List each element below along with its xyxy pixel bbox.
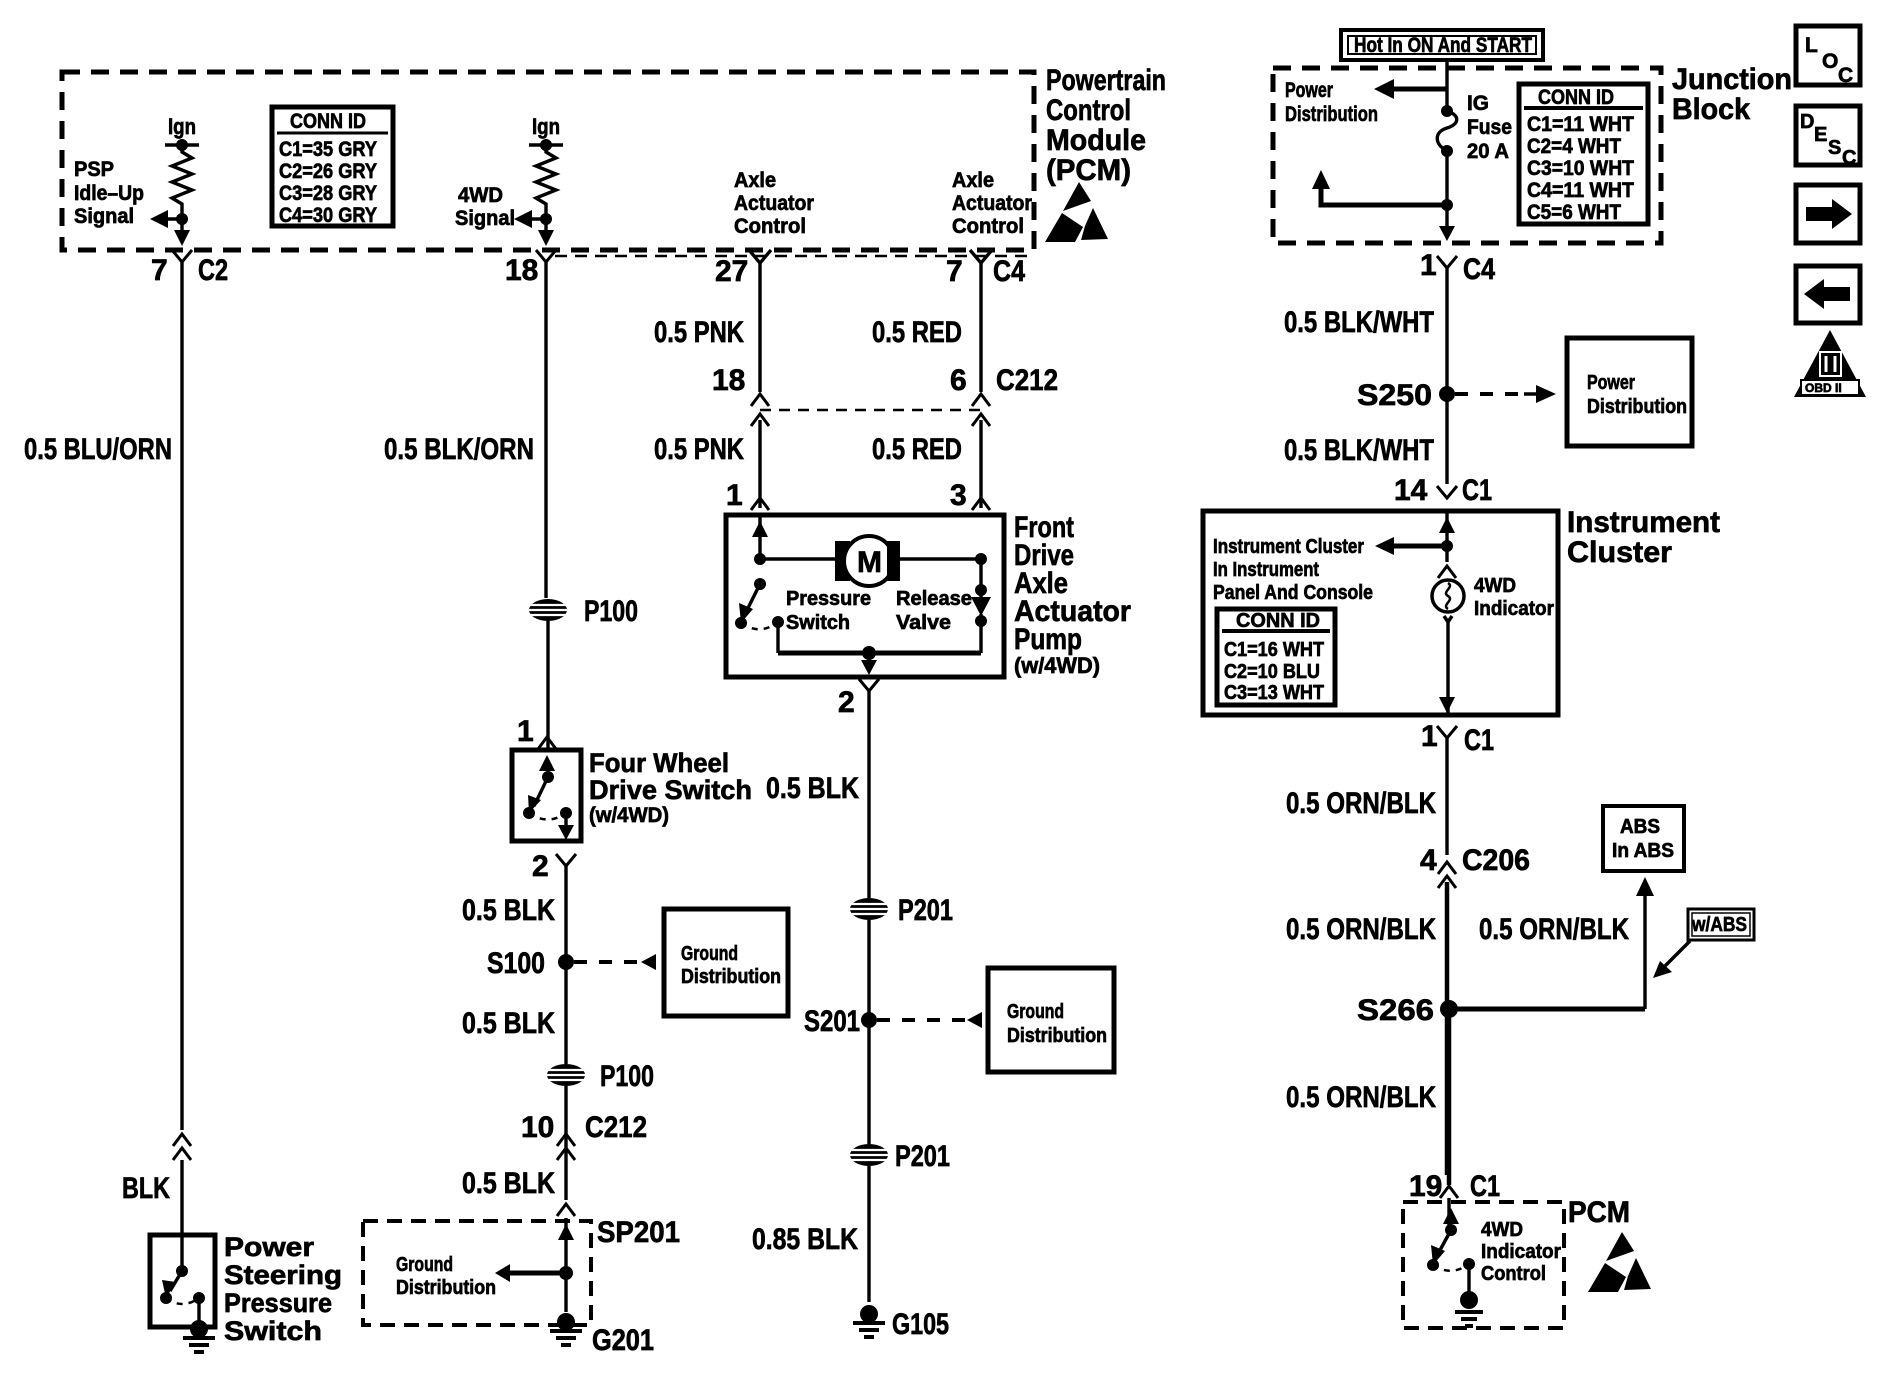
svg-text:Distribution: Distribution bbox=[1285, 103, 1378, 126]
svg-text:C4: C4 bbox=[993, 255, 1025, 288]
ground distribution box (S201) bbox=[988, 968, 1114, 1072]
svg-text:C1: C1 bbox=[1462, 474, 1492, 507]
svg-text:0.5 ORN/BLK: 0.5 ORN/BLK bbox=[1286, 913, 1436, 946]
PCM module dashed box bbox=[62, 72, 1034, 250]
4WD signal arrow bbox=[455, 184, 552, 230]
svg-text:Power: Power bbox=[1587, 372, 1635, 394]
svg-text:C1=35 GRY: C1=35 GRY bbox=[279, 138, 377, 161]
svg-text:S266: S266 bbox=[1357, 994, 1434, 1027]
svg-text:3: 3 bbox=[950, 479, 967, 512]
svg-text:0.5 ORN/BLK: 0.5 ORN/BLK bbox=[1479, 913, 1629, 946]
svg-text:CONN ID: CONN ID bbox=[1236, 610, 1320, 632]
svg-text:27: 27 bbox=[715, 255, 748, 288]
svg-text:19: 19 bbox=[1409, 1170, 1442, 1203]
svg-text:Cluster: Cluster bbox=[1567, 536, 1672, 569]
svg-text:Junction: Junction bbox=[1672, 63, 1792, 96]
svg-text:Distribution: Distribution bbox=[396, 1277, 496, 1299]
svg-text:C212: C212 bbox=[996, 364, 1058, 397]
svg-text:Block: Block bbox=[1672, 93, 1750, 126]
left arrow legend box bbox=[1796, 266, 1860, 323]
svg-text:Control: Control bbox=[952, 215, 1024, 238]
svg-text:L: L bbox=[1805, 34, 1818, 57]
svg-text:Power: Power bbox=[1285, 79, 1333, 102]
fuse IG 20A bbox=[1437, 89, 1512, 163]
svg-text:Powertrain: Powertrain bbox=[1046, 64, 1166, 97]
connector C212 chevrons right bbox=[950, 364, 1058, 426]
svg-text:Signal: Signal bbox=[74, 205, 134, 228]
wire 0.5 PNK upper bbox=[654, 263, 760, 392]
splice S201 bbox=[804, 1005, 877, 1038]
svg-text:7: 7 bbox=[946, 255, 963, 288]
svg-text:M: M bbox=[857, 546, 882, 579]
svg-text:Indicator: Indicator bbox=[1481, 1241, 1561, 1263]
svg-text:0.85 BLK: 0.85 BLK bbox=[752, 1223, 858, 1256]
grommet P201 lower bbox=[850, 1140, 950, 1173]
svg-text:Switch: Switch bbox=[786, 612, 850, 634]
lamp 4WD indicator bbox=[1432, 546, 1554, 622]
svg-text:0.5 RED: 0.5 RED bbox=[872, 316, 962, 349]
ground G201 bbox=[550, 1313, 654, 1357]
svg-text:C: C bbox=[1838, 64, 1853, 87]
svg-text:18: 18 bbox=[712, 364, 745, 397]
w/ABS box bbox=[1688, 909, 1754, 940]
S201 dashed arrow to ground distribution bbox=[877, 1012, 982, 1028]
node pin 1 C1 bbox=[1421, 720, 1494, 757]
pump bottom rail bbox=[778, 646, 981, 675]
resistor R-ign (4WD signal) bbox=[529, 114, 563, 212]
ground G105 bbox=[853, 1305, 949, 1341]
ESD symbol (PCM bottom) bbox=[1588, 1232, 1651, 1292]
junction block exit down arrow bbox=[1439, 205, 1455, 241]
svg-text:7: 7 bbox=[151, 254, 168, 287]
svg-text:P201: P201 bbox=[895, 1140, 950, 1173]
svg-text:0.5 BLK: 0.5 BLK bbox=[462, 894, 555, 927]
ESD symbol (PCM) bbox=[1045, 182, 1108, 242]
svg-text:PCM: PCM bbox=[1568, 1196, 1630, 1229]
thin connector dashed line under PCM bbox=[555, 255, 1034, 258]
svg-text:14: 14 bbox=[1394, 474, 1428, 507]
cluster exit wire and arrow bbox=[1439, 622, 1455, 715]
front drive axle actuator pump box bbox=[726, 515, 1004, 677]
wire SP201 to G201 bbox=[564, 1273, 567, 1312]
power distribution box (S250) bbox=[1567, 338, 1692, 446]
svg-text:Control: Control bbox=[734, 215, 806, 238]
release valve V1 bbox=[896, 553, 991, 653]
svg-text:Axle: Axle bbox=[734, 169, 776, 192]
node pin 2 (4WD switch) bbox=[532, 850, 576, 883]
svg-text:ABS: ABS bbox=[1620, 816, 1660, 838]
S250 dashed arrow to power distribution bbox=[1455, 385, 1556, 403]
svg-text:Distribution: Distribution bbox=[1587, 396, 1687, 418]
svg-text:Panel And Console: Panel And Console bbox=[1213, 582, 1373, 604]
svg-text:SP201: SP201 bbox=[597, 1216, 680, 1249]
instrument cluster box bbox=[1203, 511, 1558, 715]
wire 0.5 ORN/BLK (C206 to S266) bbox=[1286, 882, 1629, 1175]
svg-text:Drive Switch: Drive Switch bbox=[589, 775, 752, 805]
power distribution arrow (junction block) bbox=[1285, 79, 1447, 126]
svg-text:C4=30 GRY: C4=30 GRY bbox=[279, 204, 377, 227]
svg-text:P100: P100 bbox=[600, 1060, 654, 1093]
svg-text:0.5 PNK: 0.5 PNK bbox=[654, 316, 744, 349]
wire 0.5 PNK lower bbox=[654, 420, 760, 508]
svg-text:C3=28 GRY: C3=28 GRY bbox=[279, 182, 377, 205]
svg-text:1: 1 bbox=[726, 479, 743, 512]
right arrow legend box bbox=[1796, 185, 1860, 243]
pump left entry arrow bbox=[752, 515, 768, 565]
svg-text:Hot In ON And START: Hot In ON And START bbox=[1354, 34, 1532, 57]
PCM name label bbox=[1046, 64, 1166, 187]
svg-text:D: D bbox=[1800, 111, 1814, 133]
svg-text:0.5 RED: 0.5 RED bbox=[872, 433, 962, 466]
svg-text:4WD: 4WD bbox=[458, 184, 503, 207]
node pin 2 (pump) bbox=[838, 679, 879, 719]
svg-text:Valve: Valve bbox=[896, 612, 951, 634]
svg-text:0.5 BLK: 0.5 BLK bbox=[462, 1167, 555, 1200]
svg-text:Ground: Ground bbox=[396, 1254, 453, 1276]
wire 0.5 RED upper bbox=[872, 263, 981, 392]
wire 0.5 BLK (switch to S100) bbox=[462, 866, 566, 1064]
svg-text:C1: C1 bbox=[1470, 1170, 1500, 1203]
svg-text:4WD: 4WD bbox=[1474, 575, 1516, 597]
grommet P100 lower bbox=[547, 1060, 654, 1093]
svg-text:1: 1 bbox=[1420, 249, 1437, 282]
svg-text:Switch: Switch bbox=[224, 1316, 322, 1346]
ground at PSP switch bbox=[183, 1320, 215, 1352]
wire P201 to S201 bbox=[867, 920, 870, 1144]
svg-text:(PCM): (PCM) bbox=[1046, 154, 1131, 187]
svg-text:BLK: BLK bbox=[122, 1172, 170, 1205]
svg-text:20 A: 20 A bbox=[1467, 140, 1509, 163]
splice S100 bbox=[487, 947, 574, 980]
power steering pressure switch S-PSP bbox=[150, 1232, 342, 1346]
svg-text:Ign: Ign bbox=[532, 114, 560, 139]
svg-text:C: C bbox=[1842, 147, 1856, 169]
svg-text:E: E bbox=[1814, 124, 1827, 146]
grommet P100 upper bbox=[529, 595, 638, 628]
S100 dashed arrow to ground distribution bbox=[574, 954, 656, 970]
connector chevrons on BLK wire bbox=[122, 1134, 191, 1273]
hot in on and start box bbox=[1341, 30, 1543, 60]
svg-text:0.5 BLK: 0.5 BLK bbox=[462, 1007, 555, 1040]
svg-text:C5=6 WHT: C5=6 WHT bbox=[1527, 201, 1621, 224]
svg-text:(w/4WD): (w/4WD) bbox=[1014, 653, 1100, 678]
CONN ID box (PCM) bbox=[272, 107, 393, 227]
svg-text:Distribution: Distribution bbox=[681, 966, 781, 988]
junction block dashed box bbox=[1273, 68, 1661, 243]
four wheel drive switch SW1 bbox=[512, 748, 752, 841]
svg-text:Instrument Cluster: Instrument Cluster bbox=[1213, 536, 1364, 558]
4WD indicator control switch SW3 bbox=[1427, 1198, 1561, 1292]
svg-text:0.5 ORN/BLK: 0.5 ORN/BLK bbox=[1286, 787, 1436, 820]
svg-text:S250: S250 bbox=[1357, 379, 1432, 412]
node 10 C212 bbox=[521, 1086, 647, 1200]
svg-text:Distribution: Distribution bbox=[1007, 1025, 1107, 1047]
ground symbol (PCM internal) bbox=[1455, 1291, 1483, 1326]
svg-text:C3=13 WHT: C3=13 WHT bbox=[1224, 682, 1324, 704]
CONN ID box (junction block) bbox=[1519, 84, 1648, 224]
svg-text:Instrument: Instrument bbox=[1567, 506, 1720, 539]
wire 0.5 BLK (pump to P201) bbox=[766, 691, 869, 898]
svg-text:Actuator: Actuator bbox=[952, 192, 1032, 215]
wire PCM pin18 exit arrow bbox=[538, 219, 554, 246]
svg-text:1: 1 bbox=[1421, 720, 1438, 753]
svg-text:C1=16 WHT: C1=16 WHT bbox=[1224, 639, 1324, 661]
pressure switch SW2 bbox=[735, 578, 871, 653]
svg-text:Ground: Ground bbox=[1007, 1001, 1064, 1023]
ABS In ABS box bbox=[1603, 806, 1684, 871]
svg-text:6: 6 bbox=[950, 364, 967, 397]
wire to four wheel drive switch bbox=[546, 621, 549, 750]
svg-text:w/ABS: w/ABS bbox=[1691, 914, 1747, 936]
svg-text:In ABS: In ABS bbox=[1612, 840, 1674, 862]
svg-text:C1=11 WHT: C1=11 WHT bbox=[1527, 113, 1634, 136]
svg-text:G105: G105 bbox=[892, 1308, 949, 1341]
svg-text:Fuse: Fuse bbox=[1467, 116, 1512, 139]
svg-text:G201: G201 bbox=[592, 1324, 654, 1357]
svg-text:10: 10 bbox=[521, 1111, 554, 1144]
svg-text:Pump: Pump bbox=[1014, 623, 1082, 656]
wire 0.5 BLK/ORN bbox=[384, 262, 546, 598]
node pin 7 C4 bbox=[946, 250, 1025, 288]
svg-text:Ground: Ground bbox=[681, 943, 738, 965]
connector C212 chevrons left bbox=[712, 364, 769, 426]
wire 0.5 RED lower bbox=[872, 420, 981, 508]
ground distribution box (S100) bbox=[664, 909, 788, 1016]
node pin 19 C1 bbox=[1409, 1170, 1500, 1203]
wire 0.5 BLU/ORN bbox=[24, 262, 182, 1130]
svg-text:IG: IG bbox=[1467, 92, 1489, 115]
splice S266 bbox=[1357, 994, 1645, 1027]
svg-text:0.5 ORN/BLK: 0.5 ORN/BLK bbox=[1286, 1081, 1436, 1114]
node pin 7 C2 bbox=[151, 250, 228, 287]
cluster entry arrow and branch bbox=[1213, 511, 1455, 604]
svg-text:1: 1 bbox=[517, 715, 534, 748]
svg-text:P201: P201 bbox=[898, 894, 953, 927]
svg-text:C212: C212 bbox=[585, 1111, 647, 1144]
wire 0.5 BLK/WHT upper bbox=[1284, 268, 1447, 484]
svg-text:C1: C1 bbox=[1464, 724, 1494, 757]
svg-text:C2=26 GRY: C2=26 GRY bbox=[279, 160, 377, 183]
svg-text:0.5 BLK: 0.5 BLK bbox=[766, 772, 859, 805]
svg-text:2: 2 bbox=[532, 850, 549, 883]
svg-text:CONN ID: CONN ID bbox=[1538, 86, 1614, 109]
svg-text:S201: S201 bbox=[804, 1005, 860, 1038]
svg-text:0.5 BLK/ORN: 0.5 BLK/ORN bbox=[384, 433, 534, 466]
svg-text:P100: P100 bbox=[584, 595, 638, 628]
svg-text:Four Wheel: Four Wheel bbox=[589, 748, 729, 778]
svg-text:0.5 BLU/ORN: 0.5 BLU/ORN bbox=[24, 433, 172, 466]
svg-text:Signal: Signal bbox=[455, 207, 515, 230]
svg-text:0.5 BLK/WHT: 0.5 BLK/WHT bbox=[1284, 306, 1434, 339]
svg-text:PSP: PSP bbox=[74, 158, 114, 181]
splice S250 bbox=[1357, 379, 1455, 412]
svg-text:Pressure: Pressure bbox=[224, 1288, 332, 1318]
connector C212 dashed line bbox=[760, 409, 981, 412]
motor M1 bbox=[760, 536, 981, 586]
node pin 14 C1 bbox=[1394, 474, 1492, 507]
svg-text:Idle–Up: Idle–Up bbox=[74, 182, 144, 205]
svg-text:Power: Power bbox=[224, 1232, 315, 1262]
wire 0.85 BLK bbox=[752, 1166, 869, 1302]
svg-text:18: 18 bbox=[505, 254, 538, 287]
svg-text:Indicator: Indicator bbox=[1474, 598, 1554, 620]
svg-text:4WD: 4WD bbox=[1481, 1219, 1523, 1241]
junction block internal branch with up arrow bbox=[1312, 151, 1453, 211]
chevron at SP201 entry bbox=[557, 1204, 575, 1216]
svg-text:S100: S100 bbox=[487, 947, 545, 980]
wire 0.5 ORN/BLK (cluster to C206) bbox=[1286, 738, 1447, 855]
OBD II warning triangle bbox=[1794, 330, 1866, 397]
svg-text:Pressure: Pressure bbox=[786, 588, 871, 610]
svg-text:C4=11 WHT: C4=11 WHT bbox=[1527, 179, 1634, 202]
svg-text:C206: C206 bbox=[1462, 844, 1530, 877]
svg-text:S: S bbox=[1828, 137, 1841, 159]
svg-text:(w/4WD): (w/4WD) bbox=[589, 804, 669, 827]
SP201 internal arrow and splice bbox=[396, 1218, 574, 1299]
node pin 1 C4 bbox=[1420, 249, 1495, 286]
PCM bottom dashed box bbox=[1403, 1202, 1564, 1328]
svg-text:CONN ID: CONN ID bbox=[290, 110, 366, 133]
wire 0.5 ORN/BLK (S266 to PCM) bbox=[1286, 1009, 1449, 1185]
svg-text:Steering: Steering bbox=[224, 1260, 342, 1290]
svg-text:Module: Module bbox=[1046, 124, 1146, 157]
svg-text:Actuator: Actuator bbox=[734, 192, 814, 215]
svg-text:O: O bbox=[1822, 50, 1838, 73]
DESC legend box bbox=[1796, 106, 1860, 169]
resistor R-ign (PSP idle-up) bbox=[165, 114, 199, 212]
svg-text:C2: C2 bbox=[198, 254, 228, 287]
node pin 18 bbox=[505, 250, 556, 287]
instrument cluster name label bbox=[1567, 506, 1720, 569]
svg-text:C3=10 WHT: C3=10 WHT bbox=[1527, 157, 1634, 180]
LOC legend box bbox=[1796, 26, 1860, 87]
node pin 3 (pump) bbox=[950, 479, 990, 512]
CONN ID box (instrument cluster) bbox=[1217, 609, 1335, 705]
svg-text:0.5 PNK: 0.5 PNK bbox=[654, 433, 744, 466]
svg-text:4: 4 bbox=[1420, 844, 1437, 877]
ABS branch up arrow bbox=[1636, 877, 1654, 1009]
svg-text:C4: C4 bbox=[1463, 253, 1495, 286]
node 4 C206 bbox=[1420, 844, 1530, 888]
w/ABS leader arrow bbox=[1653, 941, 1690, 978]
svg-text:Control: Control bbox=[1481, 1263, 1546, 1285]
svg-text:0.5 BLK/WHT: 0.5 BLK/WHT bbox=[1284, 434, 1434, 467]
node pin 1 (pump) bbox=[726, 479, 769, 512]
axle actuator control label right bbox=[952, 169, 1032, 238]
node pin 27 bbox=[715, 250, 771, 288]
wire hot to junction block bbox=[1445, 60, 1448, 89]
SP201 dashed box bbox=[363, 1216, 680, 1325]
wire PCM pin7 exit arrow bbox=[174, 219, 190, 246]
junction block name label bbox=[1672, 63, 1792, 126]
svg-text:Ign: Ign bbox=[168, 114, 196, 139]
axle actuator control label left bbox=[734, 169, 814, 238]
node pin 1 (4WD switch) bbox=[517, 715, 556, 749]
svg-text:Release: Release bbox=[896, 588, 972, 610]
svg-text:C2=4 WHT: C2=4 WHT bbox=[1527, 135, 1621, 158]
svg-text:C2=10 BLU: C2=10 BLU bbox=[1224, 661, 1320, 683]
svg-text:Axle: Axle bbox=[952, 169, 994, 192]
pump name label bbox=[1014, 511, 1131, 678]
grommet P201 upper bbox=[850, 894, 953, 927]
svg-text:In Instrument: In Instrument bbox=[1213, 559, 1319, 581]
svg-text:OBD II: OBD II bbox=[1805, 381, 1842, 395]
svg-text:Control: Control bbox=[1046, 94, 1131, 127]
PSP idle-up signal arrow bbox=[74, 158, 188, 228]
svg-text:2: 2 bbox=[838, 686, 855, 719]
